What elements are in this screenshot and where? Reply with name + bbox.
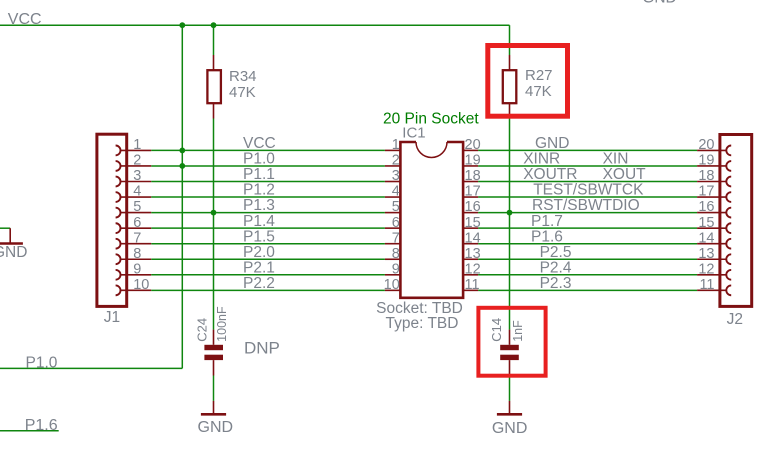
wire row 5 right (IC pin 16 to J2) — [478, 212, 697, 214]
svg-text:C24: C24 — [194, 318, 209, 342]
wire row 6 left (J1 pin 6 to IC) — [151, 227, 385, 229]
svg-text:2: 2 — [392, 153, 400, 169]
svg-text:4: 4 — [133, 184, 141, 200]
IC1 pin 3 lead (left) — [385, 181, 401, 183]
svg-text:1: 1 — [392, 137, 400, 153]
wire R27 top from rail — [509, 25, 511, 55]
svg-text:3: 3 — [392, 168, 400, 184]
wire row 3 right (IC pin 18 to J2) — [478, 181, 697, 183]
IC1 pin 4 lead (left) — [385, 196, 401, 198]
svg-text:TEST/SBWTCK: TEST/SBWTCK — [533, 182, 644, 199]
J2 contact arc pin 14 — [726, 239, 731, 249]
svg-text:13: 13 — [698, 246, 714, 262]
J1 contact arc pin 7 — [116, 239, 121, 249]
svg-text:P2.4: P2.4 — [540, 259, 572, 276]
wire row 5 left (J1 pin 5 to IC) — [151, 212, 385, 214]
wire C24 bottom to ground — [213, 376, 215, 401]
svg-text:P1.0: P1.0 — [243, 151, 275, 168]
svg-text:XOUT: XOUT — [603, 166, 647, 183]
svg-text:9: 9 — [133, 261, 141, 277]
J2 pin 14 lead — [697, 243, 726, 245]
svg-text:Type: TBD: Type: TBD — [386, 315, 459, 332]
capacitor C14 bottom lead — [509, 360, 511, 375]
IC1 pin 9 lead (left) — [385, 274, 401, 276]
junction row5 RST / R27 — [507, 210, 513, 216]
svg-text:P1.5: P1.5 — [243, 228, 275, 245]
resistor R34 bottom lead — [213, 103, 215, 118]
J2 contact arc pin 15 — [726, 223, 731, 233]
ground symbol under C24 — [201, 401, 226, 414]
J1 pin 7 lead — [121, 243, 152, 245]
J2 pin 12 lead — [697, 274, 726, 276]
wire row 4 left (J1 pin 4 to IC) — [151, 196, 385, 198]
IC1 pin 8 lead (left) — [385, 258, 401, 260]
capacitor C24 bottom plate — [204, 355, 223, 360]
svg-text:18: 18 — [465, 168, 481, 184]
IC1 pin 16 lead (right) — [463, 212, 478, 214]
svg-text:J2: J2 — [727, 311, 743, 328]
svg-text:3: 3 — [133, 168, 141, 184]
wire R34 bottom to C24 — [213, 119, 215, 330]
svg-text:100nF: 100nF — [215, 306, 229, 342]
J1 pin 4 lead — [121, 196, 152, 198]
wire row 9 right (IC pin 12 to J2) — [478, 274, 697, 276]
J1 contact arc pin 6 — [116, 223, 121, 233]
IC1 pin 13 lead (right) — [463, 258, 478, 260]
wire GND stub left edge — [0, 227, 10, 229]
svg-text:16: 16 — [698, 199, 714, 215]
svg-text:P1.0: P1.0 — [26, 355, 58, 372]
IC1 pin 6 lead (left) — [385, 227, 401, 229]
wire row 2 right (IC pin 19 to J2) — [478, 165, 697, 167]
svg-text:P1.1: P1.1 — [243, 166, 275, 183]
svg-text:R34: R34 — [229, 68, 257, 85]
svg-text:14: 14 — [465, 230, 481, 246]
svg-text:P2.2: P2.2 — [243, 275, 275, 292]
IC1 pin 15 lead (right) — [463, 227, 478, 229]
J2 contact arc pin 16 — [726, 208, 731, 218]
J1 contact arc pin 5 — [116, 208, 121, 218]
svg-text:10: 10 — [384, 277, 400, 293]
J2 contact arc pin 13 — [726, 254, 731, 264]
svg-text:XINR: XINR — [523, 151, 560, 168]
svg-text:12: 12 — [465, 261, 481, 277]
svg-text:20: 20 — [465, 137, 481, 153]
wire row 8 right (IC pin 13 to J2) — [478, 258, 697, 260]
wire vertical VCC/P1.0 at x=182 — [181, 25, 183, 368]
IC1 notch arc — [416, 142, 447, 158]
svg-text:15: 15 — [698, 215, 714, 231]
wire row 2 left (J1 pin 2 to IC) — [151, 165, 385, 167]
wire row 3 left (J1 pin 3 to IC) — [151, 181, 385, 183]
svg-text:16: 16 — [465, 199, 481, 215]
J1 contact arc pin 8 — [116, 254, 121, 264]
J2 contact arc pin 18 — [726, 177, 731, 187]
J1 contact arc pin 3 — [116, 177, 121, 187]
IC1 pin 14 lead (right) — [463, 243, 478, 245]
svg-text:13: 13 — [465, 246, 481, 262]
wire row 6 right (IC pin 15 to J2) — [478, 227, 697, 229]
junction row2 P1.0 — [179, 163, 185, 169]
svg-text:DNP: DNP — [244, 338, 280, 357]
svg-text:XIN: XIN — [603, 151, 629, 168]
svg-text:P1.2: P1.2 — [243, 182, 275, 199]
resistor R34 top lead — [213, 55, 215, 70]
J1 contact arc pin 2 — [116, 161, 121, 171]
wire row 9 left (J1 pin 9 to IC) — [151, 274, 385, 276]
IC1 pin 20 lead (right) — [463, 149, 478, 151]
svg-text:4: 4 — [392, 184, 400, 200]
svg-text:GND: GND — [198, 419, 234, 436]
svg-text:6: 6 — [392, 215, 400, 231]
wire row 7 left (J1 pin 7 to IC) — [151, 243, 385, 245]
svg-text:8: 8 — [392, 246, 400, 262]
svg-text:P1.3: P1.3 — [243, 197, 275, 214]
capacitor C24 top plate — [204, 345, 223, 350]
J2 pin 17 lead — [697, 196, 726, 198]
svg-text:17: 17 — [465, 184, 481, 200]
J2 contact arc pin 19 — [726, 161, 731, 171]
J1 pin 1 lead — [121, 149, 152, 151]
svg-text:20: 20 — [698, 137, 714, 153]
svg-text:5: 5 — [392, 199, 400, 215]
svg-text:XOUTR: XOUTR — [523, 166, 577, 183]
resistor R34 body — [207, 70, 221, 103]
svg-text:7: 7 — [392, 230, 400, 246]
svg-text:1nF: 1nF — [511, 320, 525, 342]
IC1 pin 11 lead (right) — [463, 289, 478, 291]
wire row 7 right (IC pin 14 to J2) — [478, 243, 697, 245]
junction row1 VCC — [179, 148, 185, 154]
svg-text:P2.5: P2.5 — [540, 244, 572, 261]
svg-text:P1.7: P1.7 — [531, 213, 563, 230]
ground symbol left edge — [0, 228, 23, 243]
svg-text:P1.6: P1.6 — [25, 417, 58, 434]
svg-text:47K: 47K — [525, 83, 552, 100]
svg-text:11: 11 — [465, 277, 480, 293]
J2 pin 18 lead — [697, 181, 726, 183]
capacitor C14 bottom plate — [500, 355, 519, 360]
wire R27 bottom to C14 — [509, 119, 511, 330]
wire R34 top from rail — [213, 25, 215, 55]
wire row 8 left (J1 pin 8 to IC) — [151, 258, 385, 260]
wire row 10 right (IC pin 11 to J2) — [478, 289, 697, 291]
svg-text:1: 1 — [133, 137, 141, 153]
svg-text:12: 12 — [698, 261, 714, 277]
highlight box around R27 — [488, 46, 568, 117]
resistor R27 body — [503, 70, 517, 103]
J1 contact arc pin 9 — [116, 270, 121, 280]
wire row 10 left (J1 pin 10 to IC) — [151, 289, 385, 291]
svg-text:17: 17 — [698, 184, 714, 200]
svg-text:GND: GND — [535, 135, 569, 152]
svg-text:P2.3: P2.3 — [540, 275, 572, 292]
capacitor C24 bottom lead — [213, 360, 215, 375]
IC1 pin 10 lead (left) — [385, 289, 401, 291]
svg-text:19: 19 — [465, 153, 481, 169]
svg-text:R27: R27 — [525, 67, 553, 84]
svg-text:15: 15 — [465, 215, 481, 231]
J2 pin 20 lead — [697, 149, 726, 151]
IC1 pin 1 lead (left) — [385, 149, 401, 151]
capacitor C14 top lead — [509, 330, 511, 345]
svg-text:P1.4: P1.4 — [243, 213, 275, 230]
svg-text:18: 18 — [698, 168, 714, 184]
wire P1.0 bottom horizontal — [0, 367, 182, 369]
svg-text:5: 5 — [133, 199, 141, 215]
svg-text:19: 19 — [698, 153, 714, 169]
IC1 pin 5 lead (left) — [385, 212, 401, 214]
junction row5 P1.3 / R34 — [211, 210, 217, 216]
svg-text:VCC: VCC — [8, 11, 42, 28]
J1 contact arc pin 10 — [116, 285, 121, 295]
J1 pin 2 lead — [121, 165, 152, 167]
svg-text:P2.1: P2.1 — [243, 259, 275, 276]
wire P1.6 stub bottom left — [0, 430, 59, 432]
ground symbol under C14 — [497, 401, 522, 414]
junction top rail / R34 — [211, 22, 217, 28]
capacitor C24 top lead — [213, 330, 215, 345]
svg-text:P2.0: P2.0 — [243, 244, 275, 261]
IC1 pin 19 lead (right) — [463, 165, 478, 167]
J2 pin 16 lead — [697, 212, 726, 214]
J1 pin 10 lead — [121, 289, 152, 291]
svg-text:2: 2 — [133, 153, 141, 169]
svg-text:7: 7 — [133, 230, 141, 246]
J2 contact arc pin 17 — [726, 192, 731, 202]
J2 pin 19 lead — [697, 165, 726, 167]
wire C14 bottom to ground — [509, 376, 511, 401]
capacitor C14 top plate — [500, 345, 519, 350]
svg-text:8: 8 — [133, 246, 141, 262]
connector J1 body — [97, 134, 127, 306]
svg-text:J1: J1 — [104, 309, 120, 326]
J2 contact arc pin 12 — [726, 270, 731, 280]
J2 contact arc pin 20 — [726, 146, 731, 156]
J1 pin 8 lead — [121, 258, 152, 260]
svg-text:P1.6: P1.6 — [531, 228, 563, 245]
IC1 pin 7 lead (left) — [385, 243, 401, 245]
J1 pin 6 lead — [121, 227, 152, 229]
svg-text:10: 10 — [133, 277, 149, 293]
svg-text:VCC: VCC — [243, 135, 276, 152]
svg-text:C14: C14 — [489, 318, 504, 342]
J1 pin 5 lead — [121, 212, 152, 214]
IC1 pin 2 lead (left) — [385, 165, 401, 167]
svg-text:9: 9 — [392, 261, 400, 277]
J1 pin 9 lead — [121, 274, 152, 276]
svg-text:11: 11 — [699, 277, 714, 293]
resistor R27 bottom lead — [509, 103, 511, 118]
J1 contact arc pin 1 — [116, 146, 121, 156]
IC1 pin 12 lead (right) — [463, 274, 478, 276]
svg-text:47K: 47K — [229, 84, 256, 101]
J1 contact arc pin 4 — [116, 192, 121, 202]
junction top rail / x182 — [179, 22, 185, 28]
svg-text:14: 14 — [698, 230, 714, 246]
svg-text:GND: GND — [492, 420, 528, 437]
op IC1 20-pin socket body — [400, 142, 463, 298]
resistor R27 top lead — [509, 55, 511, 70]
svg-text:GND: GND — [642, 0, 676, 7]
svg-text:6: 6 — [133, 215, 141, 231]
svg-text:RST/SBWTDIO: RST/SBWTDIO — [532, 197, 640, 214]
wire VCC top rail — [0, 24, 510, 26]
J2 pin 13 lead — [697, 258, 726, 260]
connector J2 body — [720, 135, 752, 307]
wire row 1 left (J1 pin 1 to IC) — [151, 149, 385, 151]
svg-text:20 Pin Socket: 20 Pin Socket — [383, 110, 479, 127]
IC1 pin 17 lead (right) — [463, 196, 478, 198]
J2 pin 11 lead — [697, 289, 726, 291]
IC1 pin 18 lead (right) — [463, 181, 478, 183]
J2 pin 15 lead — [697, 227, 726, 229]
J2 contact arc pin 11 — [726, 285, 731, 295]
wire row 1 right (IC pin 20 to J2) — [478, 149, 697, 151]
wire row 4 right (IC pin 17 to J2) — [478, 196, 697, 198]
svg-text:GND: GND — [0, 244, 27, 261]
J1 pin 3 lead — [121, 181, 152, 183]
highlight box around C14 — [478, 308, 545, 376]
